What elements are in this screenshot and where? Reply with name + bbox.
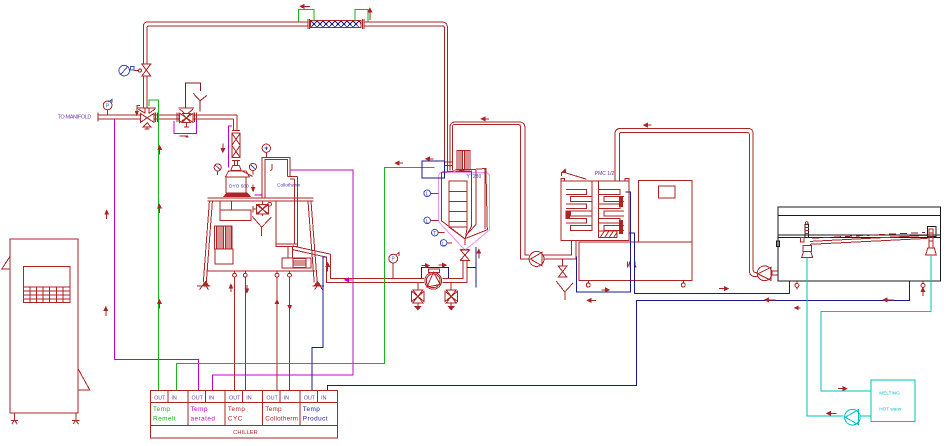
arrow left on navy line C west	[765, 298, 776, 301]
component skid table top	[208, 198, 314, 201]
heat exchanger HX1 inline static mixer	[310, 21, 361, 28]
gauge left spray nozzle on DYO lid	[214, 164, 221, 175]
svg-text:TO MANIFOLD: TO MANIFOLD	[58, 115, 92, 121]
component base drain right	[681, 280, 685, 287]
arrow down left of rotameter	[221, 144, 224, 153]
svg-text:aerated: aerated	[191, 416, 216, 423]
valve sampling valve under P2 discharge	[558, 259, 567, 277]
valve V2 three-way valve with actuator	[179, 108, 195, 127]
component drain port IN Collotherm with stem	[288, 271, 292, 390]
svg-text:PMC 1/2: PMC 1/2	[595, 171, 615, 177]
arrow right above pump P1 left	[422, 264, 430, 267]
wire YT280 outlet pipe to pump P2	[450, 122, 529, 259]
wire navy sensor tap at cone valve	[467, 247, 476, 287]
arrow left small near cyan drop	[795, 306, 801, 309]
component DYO support pedestal	[220, 201, 251, 220]
wire PHE top pipe loop to freezer pump	[615, 128, 758, 276]
svg-text:OUT: OUT	[266, 395, 278, 401]
wire green jacket hook left of HX1	[299, 10, 315, 22]
wire cyan line left fitting to melting unit via pump	[807, 257, 844, 416]
component freezer bottom drain right	[921, 281, 925, 290]
component rotameter sight glass on DYO feed	[231, 131, 241, 171]
valve cone discharge valve under YT280	[460, 249, 469, 260]
wire green line G1 from V1 top to chiller OUT Remelt	[149, 100, 158, 390]
wire agitator diagonal at DYO	[241, 171, 252, 177]
svg-text:L: L	[442, 241, 445, 247]
arrow right on navy line B	[719, 287, 728, 290]
wire diagonal transfer pipe from Collotherm outlet to elbow	[293, 246, 331, 257]
text Temp aerated cell	[191, 406, 216, 422]
wire riser pipe from V1 to valve A	[143, 76, 147, 108]
vessel Collotherm body	[276, 176, 298, 246]
svg-text:CYC: CYC	[228, 416, 243, 423]
arrow up beside navy tap	[477, 249, 480, 258]
svg-text:Temp: Temp	[191, 406, 208, 413]
svg-text:OUT: OUT	[154, 395, 166, 401]
svg-text:P: P	[392, 257, 396, 263]
node magenta stub near XV3	[255, 193, 262, 196]
wire navy bypass over pump P1	[421, 268, 448, 279]
svg-text:MELTING: MELTING	[879, 391, 900, 396]
svg-text:Product: Product	[303, 416, 328, 423]
wire magenta line M3 from Collotherm hood to chiller IN aerated	[212, 170, 352, 390]
svg-text:IN: IN	[321, 395, 326, 401]
component MELTING HOT water unit	[871, 380, 915, 421]
wire green jacket hook right of HX1	[355, 10, 368, 22]
vessel Collotherm hood	[262, 157, 297, 198]
svg-text:CHILLER: CHILLER	[233, 430, 258, 436]
component YT280 top motor finned cylinder	[455, 150, 471, 171]
arrow right on cyan return line	[838, 387, 847, 390]
arrow up on green G1 third	[158, 300, 161, 309]
vessel YT280 hopper pink jacket outline	[439, 172, 490, 249]
component control cabinet	[638, 180, 692, 242]
sensor T temperature probe	[432, 229, 445, 237]
wire magenta drip tray under V2	[174, 121, 196, 134]
valve A shutoff valve on riser	[134, 64, 151, 76]
text Temp Product cell	[303, 406, 328, 422]
arrow up floating near magenta M1	[105, 210, 108, 219]
svg-text:DYO 500: DYO 500	[229, 184, 249, 190]
arrow left on navy line C near base box	[587, 299, 596, 302]
component base drain left	[586, 280, 590, 287]
wire navy product OUT line to chiller table	[312, 257, 327, 390]
gauge P2 pressure gauge on pump suction	[389, 253, 399, 279]
node handle marks inside base	[627, 261, 636, 267]
svg-text:T: T	[433, 231, 437, 237]
arrow right above pump P1 right	[439, 263, 447, 266]
svg-text:L: L	[426, 219, 429, 225]
arrow down beside IN CYC line	[245, 285, 248, 293]
arrow up on green G1 upper	[158, 146, 161, 155]
component drain port IN CYC with stem	[243, 271, 247, 390]
arrow up on product pipe riser	[326, 263, 329, 272]
arrow up beside OUT CYC line	[229, 284, 232, 292]
sensor L2 level probe	[424, 217, 439, 225]
component base frame under cabinet	[579, 242, 692, 280]
arrow left above YT280 outlet pipe	[481, 117, 489, 120]
component chiller temperature table	[150, 390, 337, 438]
gauge P1 pressure gauge	[103, 101, 112, 115]
wire cyan line right fitting to melting unit	[821, 255, 931, 391]
svg-text:Temp: Temp	[228, 406, 245, 413]
valve V1 three-way valve with actuator	[136, 106, 157, 129]
component freezer bottom drain left	[795, 281, 799, 290]
component pump motor block on skid	[282, 258, 311, 268]
component YT280 inlet flange block	[444, 162, 452, 165]
arrow down right of DYO vessel	[252, 184, 255, 191]
component skid left legs and foot	[197, 201, 213, 290]
text Temp Collotherm cell	[265, 406, 298, 422]
gauge right spray nozzle on DYO lid	[249, 163, 256, 174]
wire main red supply pipe to heat exchanger (double line)	[143, 19, 447, 173]
component heater finned block	[215, 226, 233, 264]
arrow red left above green G2 corner	[395, 162, 403, 165]
arrow right on navy line A	[602, 288, 610, 291]
component vent funnel and loop seal above V2	[185, 83, 207, 111]
pump P4 cyan hot water pump	[845, 409, 871, 425]
component Y strainer under sampling valve	[556, 281, 573, 300]
arrow magenta flow left on pump suction pipe	[345, 278, 352, 281]
svg-text:Collotherm: Collotherm	[265, 416, 298, 423]
svg-text:Temp: Temp	[303, 406, 320, 413]
svg-text:HOT water: HOT water	[879, 407, 902, 412]
svg-text:IN: IN	[284, 395, 289, 401]
wire magenta line M1 from manifold tap to chiller OUT aerated	[115, 119, 199, 390]
text table headers OUT IN	[154, 395, 326, 401]
arrow red left above junction box	[426, 157, 434, 160]
valve XV1 cross plug valve under product line	[412, 282, 425, 310]
arrow up near navy C riser	[921, 288, 924, 296]
svg-text:P: P	[106, 104, 110, 110]
svg-text:L: L	[426, 192, 429, 198]
component freezer right port fitting	[926, 229, 937, 255]
arrow up right of chiller unit	[104, 307, 107, 316]
svg-text:Temp: Temp	[265, 406, 282, 413]
component chiller unit cabinet left	[2, 239, 90, 424]
component drain funnel under XV3	[252, 216, 271, 236]
text Temp Remelt cell	[153, 406, 176, 422]
vessel YT280 hopper body	[441, 168, 487, 245]
svg-text:IN: IN	[209, 395, 214, 401]
svg-text:OUT: OUT	[229, 395, 241, 401]
component PHE plate heat exchanger body	[561, 179, 629, 241]
wire product pipe elbow down to pump P1 suction	[327, 254, 424, 282]
svg-text:Remelt: Remelt	[153, 416, 176, 423]
component drain port OUT Collotherm with stem	[275, 271, 279, 390]
svg-text:IN: IN	[246, 395, 251, 401]
pump P3 freezer feed pump	[757, 266, 778, 281]
wire magenta line M2 from pipe elbow down to DYO neck	[228, 126, 232, 167]
sensor L3 level probe low	[440, 240, 452, 248]
wire navy line A PHE upper port to P2 discharge tap	[576, 192, 630, 292]
component skid right legs and foot	[308, 201, 324, 290]
arrow left above freezer loop pipe	[644, 124, 652, 127]
wire pump P1 discharge to YT280 cone valve	[442, 260, 467, 282]
gauge vent gauge on Collotherm hood	[262, 144, 270, 157]
sensor L1 level probe	[424, 190, 439, 198]
svg-text:YT280: YT280	[467, 174, 482, 180]
svg-text:OUT: OUT	[304, 395, 316, 401]
arrow up on green G1 lower	[158, 204, 161, 213]
wire manifold pipe horizontal double line	[98, 113, 237, 131]
component drain port OUT CYC with stem	[233, 271, 237, 390]
arrow down beside IN Collotherm line	[288, 302, 291, 310]
wire pump P2 discharge to PHE inlet	[543, 241, 576, 259]
wire green line G2 from YT280 jacket to chiller IN Remelt	[177, 167, 435, 390]
svg-text:Temp: Temp	[153, 406, 170, 413]
arrow flow up right of right hook	[368, 8, 372, 20]
pump P1 centrifugal pump	[425, 269, 442, 289]
component scraped surface tube internals	[810, 232, 928, 244]
vessel DYO 500	[224, 171, 250, 197]
text Temp CYC cell	[228, 406, 245, 422]
wire navy line B PHE lower port to freezer bottom left	[629, 233, 790, 294]
arrow up on OUT Collotherm line	[275, 300, 278, 308]
vessel chest freezer SSHE black outline	[776, 207, 940, 281]
arrow flow left above left hook	[300, 5, 310, 9]
valve XV2 cross plug valve under product line	[445, 282, 458, 310]
svg-text:OUT: OUT	[192, 395, 204, 401]
arrow left on navy line C east	[883, 298, 894, 301]
node drain tick below drip tray	[180, 136, 189, 137]
component freezer left port fitting	[801, 222, 813, 258]
valve XV3 cross plug valve at DYO outlet	[253, 201, 272, 216]
gauge solenoid indicator at valve A	[119, 65, 134, 76]
arrow left on cyan pump suction	[827, 412, 837, 415]
component navy junction box at YT280 top	[422, 161, 445, 178]
wire Collotherm bottom outlet pipe	[288, 247, 292, 258]
svg-text:Collotherm: Collotherm	[277, 183, 300, 189]
pump P2 centrifugal pump	[529, 251, 544, 266]
svg-text:IN: IN	[171, 395, 176, 401]
component skid bottom frame rail	[208, 270, 316, 272]
wire navy line C freezer bottom right to chiller IN Product	[327, 281, 909, 390]
